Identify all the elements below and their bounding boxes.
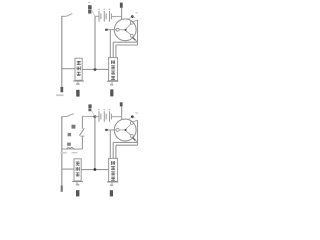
label above right lead (bottom) bbox=[120, 102, 123, 106]
wire: left vertical bus bbox=[61, 16, 63, 87]
label above middle bus char 2 bbox=[88, 10, 91, 14]
wire: horizontal return 2 (bottom) bbox=[116, 144, 138, 146]
wire: drop from stub to right box pin1 (bottom) bbox=[109, 130, 111, 159]
label: tiny mark below left box bbox=[76, 83, 80, 85]
label: right box U4 char 1 bbox=[111, 161, 115, 165]
node: dark dot top right bbox=[131, 15, 134, 18]
node: small terminal circle left of stub bbox=[105, 29, 108, 31]
battery polarity ticks bbox=[98, 9, 110, 11]
selector upper-right spoke bbox=[126, 24, 131, 29]
block: right box U4 bbox=[109, 158, 118, 181]
label: left box U3 char 3 bbox=[76, 172, 80, 176]
base line under right box (bottom fig) bbox=[107, 181, 118, 183]
switch branch: upper segment bbox=[81, 116, 83, 128]
label above middle bus tick bbox=[88, 2, 90, 3]
wire: upper right vertical to circle (bottom) bbox=[121, 107, 123, 120]
selector left spoke bbox=[119, 29, 124, 31]
node: junction dot mid bus bbox=[94, 68, 97, 71]
wire: stub below left box bbox=[77, 81, 79, 83]
label: left box char 1 bbox=[77, 61, 81, 65]
switch blade K bbox=[79, 128, 84, 135]
wire: upper right vertical to circle bbox=[121, 8, 123, 19]
selector lower-right terminal bbox=[130, 34, 133, 37]
selector M1: outer circle bbox=[114, 19, 136, 41]
wire: middle vertical bus bbox=[94, 16, 96, 69]
wire: battery left lead (bottom) bbox=[95, 116, 99, 118]
node: junction dot mid bus (bottom fig) bbox=[94, 168, 97, 171]
label under left bus (faint) bbox=[56, 94, 64, 96]
label: dark text below left box bbox=[76, 90, 79, 97]
label near switch 3 bbox=[67, 143, 71, 146]
label: dark text below U4 bbox=[110, 190, 113, 196]
label: right box char 3 bbox=[111, 71, 115, 75]
label: tiny mark below U4 bbox=[110, 184, 113, 186]
switch branch: lower segment bbox=[81, 136, 83, 149]
wire: horizontal return 1 bbox=[113, 41, 137, 43]
label: dark text below right box bbox=[110, 89, 113, 96]
wire: diagonal from lower-right terminal bbox=[133, 37, 137, 42]
selector M2 left spoke bbox=[119, 129, 124, 131]
node: junction dot at battery (bottom fig) bbox=[94, 115, 97, 118]
base line under left box (bottom fig) bbox=[72, 181, 83, 183]
wire: diagonal from M2 lower-right terminal bbox=[133, 137, 137, 142]
wire: faint diagonal into dot (left) bbox=[129, 17, 133, 19]
label: right box U4 char 3 bbox=[111, 171, 115, 175]
label above middle bus char 2 (bottom) bbox=[88, 108, 91, 111]
node: dark terminal at bottom of left bus bbox=[61, 87, 64, 92]
leader from label to middle bus (bottom) bbox=[91, 111, 94, 117]
wire: left bus to left box (bottom fig) bbox=[62, 168, 74, 170]
wire: drop to right box pin3 (bottom) bbox=[115, 145, 117, 158]
wire: right vertical bus bbox=[137, 20, 139, 45]
leader from label to middle bus bbox=[92, 10, 95, 16]
wire: battery left lead bbox=[95, 15, 99, 17]
label: faint mark near top-right dot bbox=[136, 12, 139, 13]
label: right box char 4 bbox=[111, 76, 115, 80]
block: right box U2 bbox=[109, 58, 118, 81]
battery GB2 cells bbox=[99, 111, 111, 122]
wire: drop from stub to right box pin1 bbox=[109, 30, 111, 58]
wire: drop to right box pin3 bbox=[115, 45, 117, 58]
dark junction wedge at M2 lower-right terminal bbox=[133, 138, 136, 141]
base line under right box bbox=[107, 80, 118, 82]
wire: diagonal from M2 upper-right terminal bbox=[133, 120, 137, 122]
battery GB cells bbox=[99, 11, 111, 22]
label: right box char 2 bbox=[111, 65, 115, 69]
wire: bottom return bbox=[62, 148, 83, 150]
battery GB2 polarity ticks bbox=[98, 109, 110, 111]
wire: faint diagonal from dot (right) bbox=[132, 17, 135, 18]
wire: drop to right box pin2 bbox=[112, 42, 114, 57]
switch lower contact tick bbox=[81, 135, 85, 137]
wire: stub into selector left terminal bbox=[106, 29, 116, 31]
hook lead-in (top-left curl) bbox=[62, 14, 73, 16]
wire: diagonal from upper-right terminal bbox=[133, 20, 137, 22]
selector hub dot bbox=[124, 29, 126, 31]
label: tiny mark below right box bbox=[110, 84, 113, 86]
label: faint mark near top-right dot (bottom) bbox=[136, 112, 139, 113]
selector M2 upper-right terminal bbox=[130, 121, 133, 124]
label: right box U4 char 4 bbox=[111, 177, 115, 181]
selector M2 lower-right spoke bbox=[126, 131, 130, 135]
label: left box char 2 bbox=[77, 66, 81, 70]
node: dark dot top right (bottom) bbox=[131, 115, 134, 118]
wire: left box to right box (bottom fig) bbox=[81, 169, 108, 171]
label: right box U4 char 2 bbox=[111, 166, 115, 170]
node: darker end of left bus (bottom fig) bbox=[61, 186, 63, 192]
wire: battery right lead (bottom) bbox=[111, 116, 121, 118]
selector upper-right terminal bbox=[130, 21, 133, 24]
wire: left vertical bus (bottom fig) bbox=[61, 116, 63, 186]
wire: switch top to battery node bbox=[82, 115, 95, 117]
label: right box char 1 bbox=[111, 60, 115, 64]
wire: stub below right box U4 bbox=[111, 182, 113, 185]
label above middle bus char 1 (bottom) bbox=[88, 104, 91, 108]
label: left box char 3 bbox=[77, 72, 81, 76]
label near switch 2 bbox=[68, 133, 72, 136]
wire: stub below left box U3 bbox=[76, 182, 78, 184]
hook lead-in (bottom figure) bbox=[62, 114, 74, 117]
selector M2 lower-right terminal bbox=[130, 134, 133, 137]
block: left box U3 bbox=[74, 159, 81, 181]
wire: left box to right box bbox=[82, 68, 108, 70]
wire: right vertical bus (bottom) bbox=[137, 120, 139, 145]
selector lower-right spoke bbox=[126, 31, 130, 35]
wire: faint diagonal into dot left (bottom) bbox=[129, 117, 133, 119]
block: left box U1 bbox=[75, 58, 82, 80]
label: left box U3 char 1 bbox=[76, 162, 80, 166]
label near switch 1 bbox=[72, 125, 76, 129]
selector M2 left terminal bbox=[116, 128, 119, 131]
selector M2 upper-right spoke bbox=[126, 124, 131, 129]
wire: stub below right box bbox=[111, 81, 113, 84]
selector left terminal bbox=[116, 28, 119, 31]
label: left box U3 char 2 bbox=[76, 167, 80, 171]
base line under left box bbox=[73, 80, 84, 82]
wire: middle vertical bus (bottom fig) bbox=[94, 117, 96, 170]
wire: left bus to left box bbox=[62, 68, 75, 70]
dark junction wedge at lower-right terminal bbox=[133, 37, 136, 40]
label: dark text below U3 bbox=[76, 190, 79, 196]
inductor humps on return wire bbox=[66, 147, 75, 149]
label above middle bus char 1 bbox=[88, 5, 92, 9]
wire: battery right lead bbox=[111, 15, 121, 17]
label above right lead char 1 bbox=[120, 3, 123, 8]
node: small terminal circle left of stub (bottom) bbox=[105, 129, 108, 131]
faint residue marks under return wire bbox=[60, 152, 66, 154]
wire: horizontal return 1 (bottom) bbox=[113, 141, 137, 143]
selector M2 hub dot bbox=[124, 129, 126, 131]
wire: faint diagonal from dot right (bottom) bbox=[132, 117, 135, 118]
label: tiny mark below U3 bbox=[76, 184, 80, 186]
wire: stub into selector M2 left terminal bbox=[106, 129, 116, 131]
selector M2: outer circle bbox=[114, 119, 136, 141]
wire: horizontal return 2 bbox=[116, 44, 138, 46]
wire: drop to right box pin2 (bottom) bbox=[112, 142, 114, 158]
